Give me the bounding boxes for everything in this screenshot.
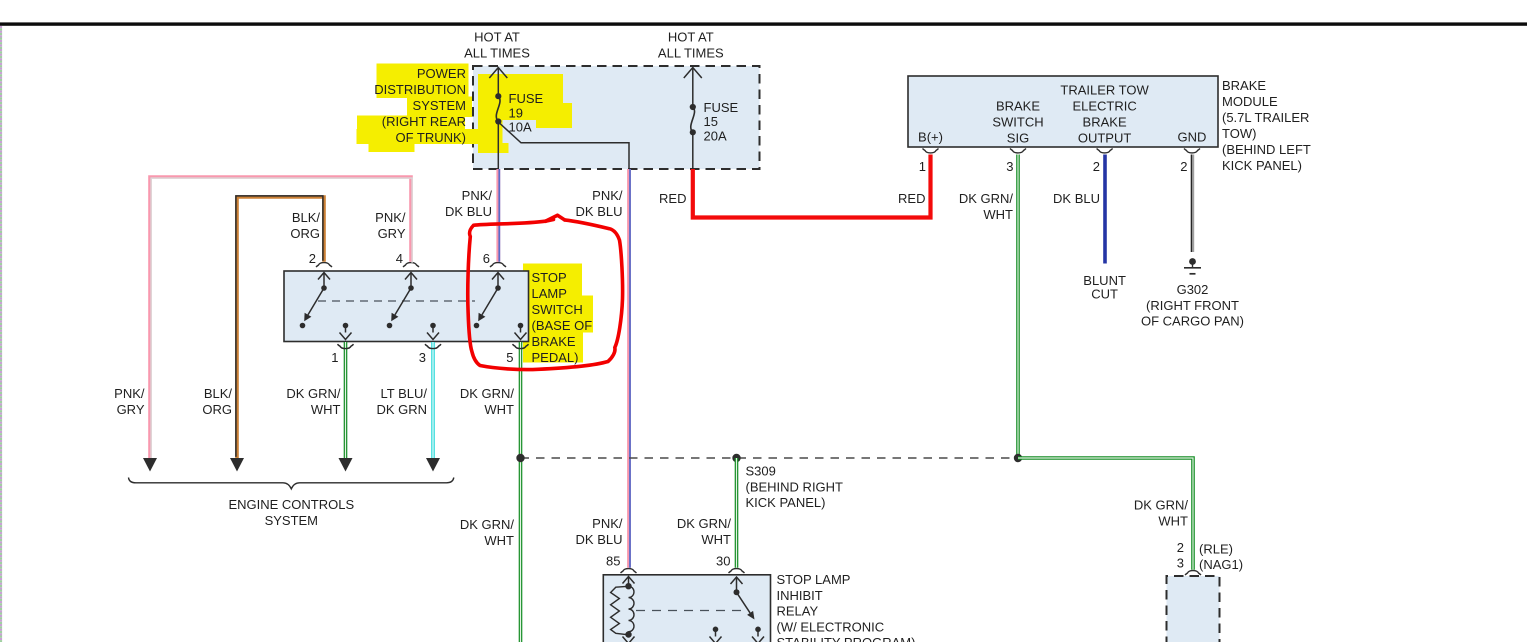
svg-text:2: 2 [1177, 540, 1184, 555]
svg-text:PNK/: PNK/ [462, 188, 493, 203]
svg-text:PNK/: PNK/ [592, 188, 623, 203]
svg-text:BRAKE: BRAKE [532, 334, 576, 349]
top page border bar [0, 22, 1527, 25]
svg-text:SWITCH: SWITCH [992, 114, 1043, 129]
svg-text:FUSE: FUSE [509, 91, 544, 106]
svg-text:HOT AT: HOT AT [668, 30, 714, 45]
switch pole 6-5 [474, 273, 527, 340]
svg-text:(RIGHT FRONT: (RIGHT FRONT [1146, 298, 1239, 313]
pin 5 [506, 344, 528, 365]
svg-text:WHT: WHT [701, 532, 731, 547]
wire: fuse 19 output branch (to pin 85 column) [498, 122, 629, 169]
svg-text:(W/ ELECTRONIC: (W/ ELECTRONIC [777, 619, 885, 634]
wire: DK GRN/WHT pin 1 to engine controls [344, 342, 348, 459]
wire: PNK/GRY loop to pin 4 [150, 177, 411, 458]
highlight: power distribution system label [357, 64, 480, 153]
svg-text:(RLE): (RLE) [1199, 542, 1233, 557]
svg-text:CUT: CUT [1091, 287, 1118, 302]
junction S309 [732, 454, 740, 462]
svg-text:ALL TIMES: ALL TIMES [658, 46, 724, 61]
svg-text:S309: S309 [746, 464, 776, 479]
svg-text:DK BLU: DK BLU [576, 532, 623, 547]
svg-text:WHT: WHT [484, 533, 514, 548]
svg-text:SIG: SIG [1007, 130, 1029, 145]
svg-text:POWER: POWER [417, 66, 466, 81]
svg-text:OUTPUT: OUTPUT [1078, 131, 1132, 146]
svg-text:3: 3 [1006, 159, 1013, 174]
switch linkage dashed line [318, 300, 475, 302]
svg-text:MODULE: MODULE [1222, 94, 1278, 109]
highlight: fuse 19 [478, 74, 572, 153]
pin 1 connector overdraw [338, 344, 354, 348]
pin 3 connector overdraw [425, 344, 441, 348]
svg-text:LAMP: LAMP [532, 286, 567, 301]
RLE/NAG1 connector [1185, 571, 1201, 575]
svg-text:1: 1 [919, 159, 926, 174]
svg-text:PNK/: PNK/ [114, 386, 145, 401]
svg-text:KICK PANEL): KICK PANEL) [1222, 158, 1302, 173]
svg-text:15: 15 [704, 114, 718, 129]
svg-text:PNK/: PNK/ [592, 516, 623, 531]
svg-text:19: 19 [509, 105, 523, 120]
arrow: PNK/GRY to engine controls [143, 458, 157, 472]
power distribution center box (fuse block) [473, 66, 760, 169]
svg-text:(NAG1): (NAG1) [1199, 557, 1243, 572]
svg-text:ELECTRIC: ELECTRIC [1072, 99, 1136, 114]
svg-text:BLK/: BLK/ [292, 210, 321, 225]
svg-text:WHT: WHT [1158, 513, 1188, 528]
svg-text:DK BLU: DK BLU [445, 204, 492, 219]
pin 5 connector overdraw [513, 344, 529, 348]
pin 4 [396, 251, 419, 267]
svg-text:STOP: STOP [532, 270, 567, 285]
svg-text:WHT: WHT [983, 207, 1013, 222]
wire: RED fuse 15 to B(+) [693, 155, 931, 218]
svg-text:TRAILER TOW: TRAILER TOW [1060, 83, 1149, 98]
svg-text:DISTRIBUTION: DISTRIBUTION [374, 82, 466, 97]
svg-text:KICK PANEL): KICK PANEL) [746, 495, 826, 510]
fuse F19 10A [489, 68, 543, 170]
svg-text:6: 6 [483, 251, 490, 266]
svg-text:STABILITY PROGRAM): STABILITY PROGRAM) [777, 635, 916, 642]
svg-text:85: 85 [606, 554, 620, 569]
wire: BLK/GRY to ground [1191, 155, 1194, 253]
relay linkage dashed [636, 610, 744, 612]
svg-text:OF TRUNK): OF TRUNK) [395, 130, 466, 145]
highlight: stop lamp switch label [523, 264, 593, 363]
svg-text:B(+): B(+) [918, 130, 943, 145]
svg-text:RELAY: RELAY [777, 604, 819, 619]
node wire (dashed) S309 bus [521, 457, 1019, 459]
svg-text:BRAKE: BRAKE [996, 98, 1040, 113]
svg-text:(RIGHT REAR: (RIGHT REAR [382, 114, 466, 129]
svg-text:ENGINE CONTROLS: ENGINE CONTROLS [228, 497, 354, 512]
svg-text:SWITCH: SWITCH [532, 302, 583, 317]
wire: LT BLU/DK GRN pin 3 to engine controls [431, 342, 435, 459]
relay switch 30 [710, 577, 765, 642]
wire: PNK/DK BLU fuse 19 to pin 6 [496, 169, 500, 262]
svg-text:GRY: GRY [378, 226, 406, 241]
svg-text:ORG: ORG [290, 226, 320, 241]
pin 6 [483, 251, 506, 267]
svg-text:PNK/: PNK/ [375, 210, 406, 225]
svg-text:BRAKE: BRAKE [1083, 115, 1127, 130]
svg-text:DK BLU: DK BLU [1053, 191, 1100, 206]
svg-text:10A: 10A [509, 120, 532, 135]
svg-text:3: 3 [419, 350, 426, 365]
svg-text:LT BLU/: LT BLU/ [381, 386, 428, 401]
svg-text:2: 2 [309, 251, 316, 266]
switch pole 4-3 [387, 273, 439, 340]
svg-text:(BEHIND RIGHT: (BEHIND RIGHT [746, 479, 844, 494]
arrow: DK GRN/WHT to engine controls [339, 458, 353, 472]
brace: engine controls system [129, 478, 454, 489]
wire: DK GRN/WHT S309 to relay pin 30 [735, 458, 739, 568]
junction at pin5 wire [516, 454, 524, 462]
pin 3 [419, 344, 441, 365]
svg-text:5: 5 [506, 350, 513, 365]
svg-text:STOP LAMP: STOP LAMP [777, 572, 851, 587]
brake module box [908, 76, 1218, 147]
svg-text:INHIBIT: INHIBIT [777, 588, 823, 603]
svg-text:DK GRN/: DK GRN/ [460, 386, 515, 401]
stop lamp inhibit relay box [603, 575, 770, 642]
svg-text:PEDAL): PEDAL) [532, 350, 579, 365]
wire: DK GRN/WHT brake switch sig [1016, 155, 1020, 459]
svg-text:GND: GND [1178, 130, 1207, 145]
svg-text:FUSE: FUSE [704, 100, 739, 115]
relay pin 85 connector [606, 554, 636, 574]
wire: PNK/DK BLU fuse 19 branch to relay pin 85 [627, 169, 631, 568]
svg-text:ALL TIMES: ALL TIMES [464, 46, 530, 61]
relay coil with resistor [611, 577, 635, 642]
svg-text:OF CARGO PAN): OF CARGO PAN) [1141, 314, 1244, 329]
svg-text:SYSTEM: SYSTEM [265, 513, 318, 528]
wire: BLK/ORG loop to pin 2 [237, 197, 324, 458]
svg-text:BRAKE: BRAKE [1222, 78, 1266, 93]
svg-text:SYSTEM: SYSTEM [413, 98, 466, 113]
module pin 2 connector (output) [1093, 149, 1113, 175]
svg-text:G302: G302 [1177, 282, 1209, 297]
svg-text:DK BLU: DK BLU [576, 204, 623, 219]
annotation: red circle around switch 6-5 [468, 215, 623, 369]
wire: DK GRN/WHT pin 5 down (node S-line) [519, 342, 523, 642]
svg-text:GRY: GRY [117, 402, 145, 417]
svg-text:4: 4 [396, 251, 403, 266]
svg-text:WHT: WHT [311, 402, 341, 417]
svg-text:DK GRN: DK GRN [376, 402, 427, 417]
junction at sig wire [1014, 454, 1022, 462]
module pin 2 connector (gnd) [1180, 149, 1200, 175]
svg-text:DK GRN/: DK GRN/ [677, 516, 732, 531]
transmission module box (RLE/NAG1) [1167, 576, 1220, 642]
wire: DK GRN/WHT node to RLE/NAG1 [1018, 458, 1193, 570]
svg-text:TOW): TOW) [1222, 126, 1256, 141]
svg-text:1: 1 [331, 350, 338, 365]
svg-text:2: 2 [1093, 159, 1100, 174]
pin 1 [331, 344, 353, 365]
svg-text:(BASE OF: (BASE OF [532, 318, 593, 333]
wire: DK BLU brake output (blunt cut) [1103, 155, 1107, 264]
ground G302 symbol [1184, 258, 1201, 274]
svg-text:RED: RED [898, 191, 925, 206]
svg-text:(5.7L TRAILER: (5.7L TRAILER [1222, 110, 1309, 125]
svg-text:HOT AT: HOT AT [474, 30, 520, 45]
left page edge dotted border [0, 26, 2, 642]
pin 2 [309, 251, 332, 267]
relay pin 30 connector [716, 554, 744, 574]
svg-text:ORG: ORG [202, 402, 232, 417]
svg-text:2: 2 [1180, 159, 1187, 174]
svg-text:DK GRN/: DK GRN/ [1134, 498, 1189, 513]
fuse F15 20A [684, 68, 739, 170]
svg-text:BLK/: BLK/ [204, 386, 233, 401]
svg-text:DK GRN/: DK GRN/ [959, 191, 1014, 206]
svg-text:30: 30 [716, 554, 730, 569]
arrow: LT BLU/DK GRN to engine controls [426, 458, 440, 472]
svg-text:RED: RED [659, 191, 686, 206]
svg-text:(BEHIND LEFT: (BEHIND LEFT [1222, 142, 1311, 157]
arrow: BLK/ORG to engine controls [230, 458, 244, 472]
stop lamp switch box [284, 271, 529, 342]
module pin 3 connector [1006, 149, 1026, 175]
svg-text:DK GRN/: DK GRN/ [460, 517, 515, 532]
svg-text:3: 3 [1177, 556, 1184, 571]
module pin 1 connector [919, 149, 939, 175]
svg-text:20A: 20A [704, 128, 727, 143]
switch pole 2-1 [300, 273, 352, 340]
svg-text:WHT: WHT [484, 402, 514, 417]
svg-text:DK GRN/: DK GRN/ [286, 386, 341, 401]
